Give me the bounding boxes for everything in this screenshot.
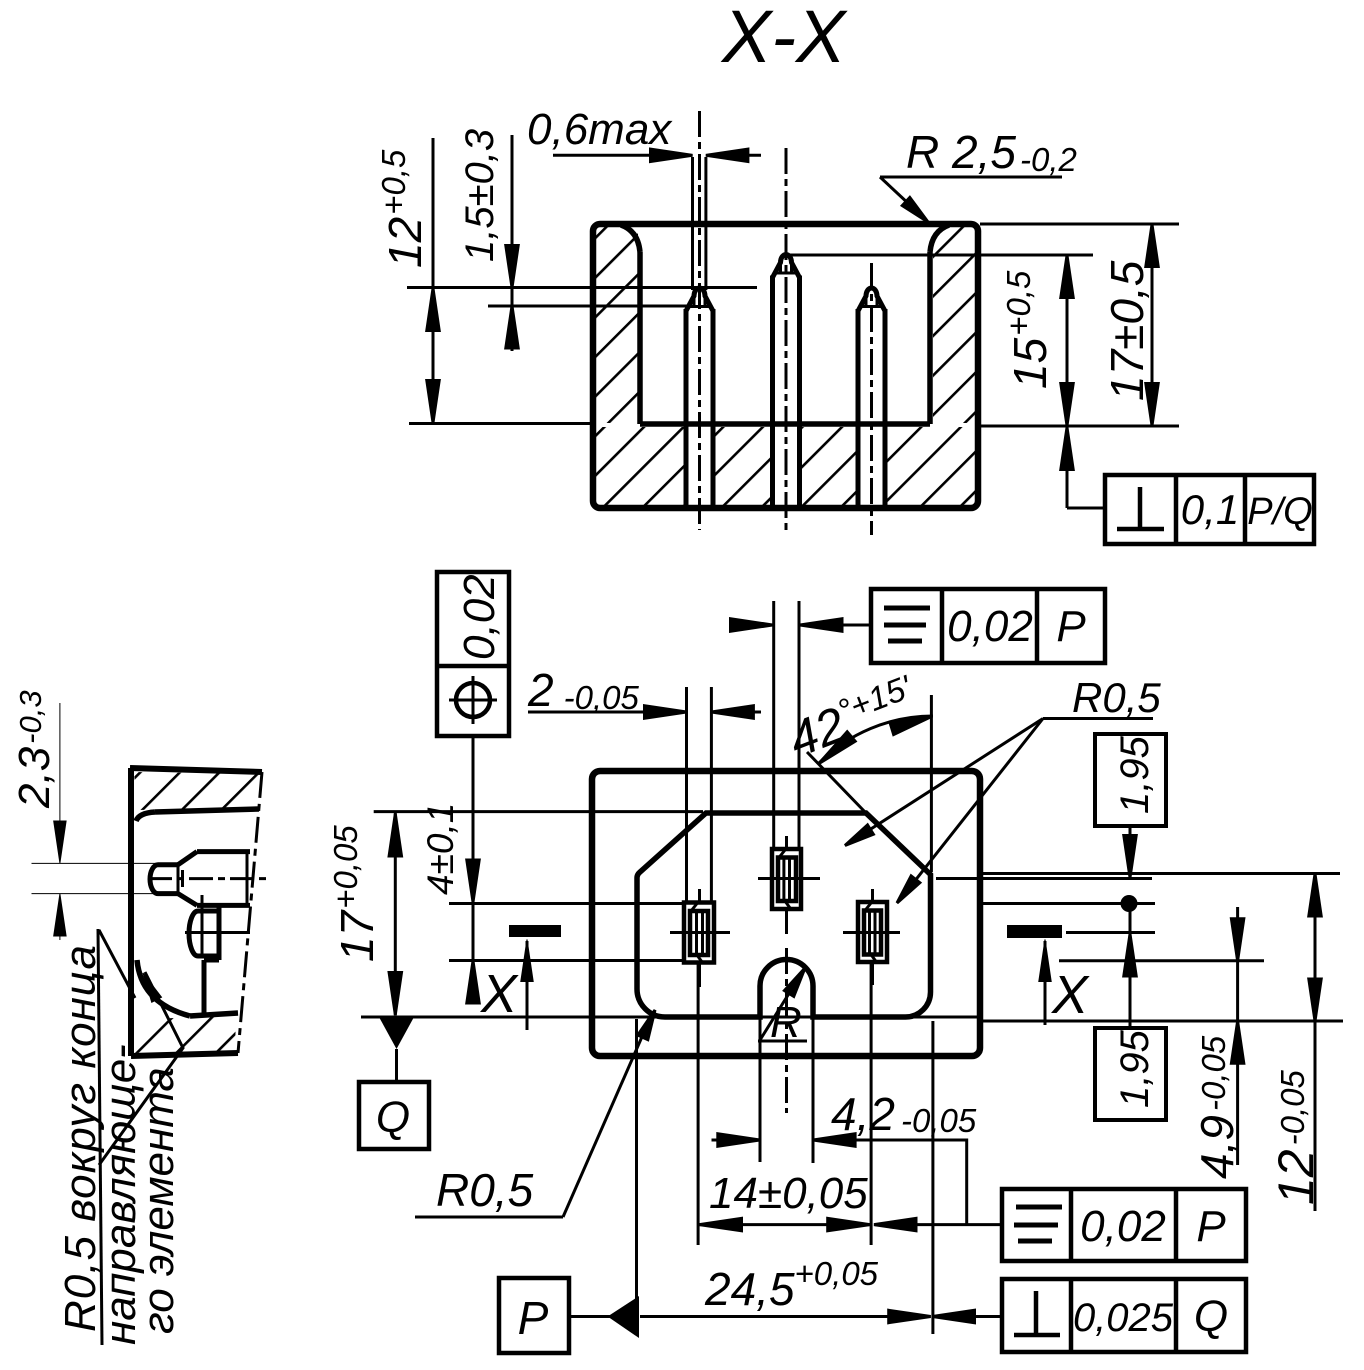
- svg-text:1,95: 1,95: [1113, 735, 1157, 814]
- bottom wall inner edge: [190, 1013, 238, 1016]
- guide pin bullet: [150, 852, 250, 906]
- ext 42deg vertical leg: [930, 695, 933, 872]
- pin socket centre centerlines: [785, 836, 788, 848]
- datum P box: [499, 1278, 569, 1353]
- ext socket width verticals: [685, 687, 688, 902]
- pin socket left centerlines: [698, 889, 701, 902]
- ext floor right: [980, 425, 1179, 428]
- svg-text:0,02: 0,02: [1080, 1202, 1166, 1251]
- svg-text:P: P: [1196, 1202, 1226, 1251]
- dim 12-0,05: [1314, 874, 1317, 1212]
- ext centre socket verticals: [772, 601, 775, 849]
- pin socket centre: [772, 849, 801, 909]
- pin 3 centerline: [870, 263, 873, 535]
- svg-text:R0,5: R0,5: [436, 1164, 534, 1216]
- cavity floor wall: [217, 906, 222, 960]
- FCF position 0,02 box: [437, 572, 509, 736]
- svg-text:P/Q: P/Q: [1247, 491, 1312, 533]
- ext notch walls down: [759, 1017, 762, 1162]
- pin socket right: [858, 902, 887, 962]
- axis centre pin row: [758, 877, 820, 880]
- ext notch top right: [1059, 959, 1264, 962]
- ext cavity bottom right: [980, 1020, 1343, 1023]
- FCF perpendicularity 0,025 Q: [1002, 1279, 1246, 1352]
- top wall hatch: [134, 772, 259, 810]
- svg-text:0,025: 0,025: [1073, 1296, 1174, 1340]
- datum Q box: [359, 1082, 429, 1149]
- guide element bump: [189, 911, 219, 956]
- cavity flare fillet: [137, 960, 190, 1016]
- svg-text:1,95: 1,95: [1113, 1029, 1157, 1108]
- ext line pin2 tip level right: [788, 254, 1093, 257]
- ext cavity bottom left: [361, 1016, 980, 1019]
- dim 0,6max lines: [691, 157, 694, 290]
- ext pin right centre down: [870, 962, 873, 1245]
- datum P leader and triangle: [569, 1315, 612, 1318]
- pin 2 centerline: [785, 148, 788, 535]
- pin 1 body: [686, 288, 713, 506]
- section arrow right: [1044, 941, 1047, 1025]
- pin 1 centerline: [698, 111, 701, 530]
- svg-text:1,5±0,3: 1,5±0,3: [458, 129, 502, 262]
- dim 1,95 upper box: [1095, 734, 1166, 826]
- body outline: [130, 768, 262, 772]
- FCF perpendicularity bottom leader: [934, 1315, 1002, 1318]
- svg-text:P: P: [1056, 602, 1086, 651]
- cavity right entry fillet R2,5: [930, 225, 949, 252]
- pin socket left: [684, 903, 714, 963]
- svg-text:14±0,05: 14±0,05: [709, 1169, 868, 1218]
- axis outer pin row right: [1066, 931, 1155, 934]
- ext cavity right edge down: [931, 1021, 934, 1334]
- left wall hatch: [596, 227, 638, 423]
- FCF position leader / dim 4±0,1 line: [472, 736, 475, 986]
- svg-text:X-X: X-X: [720, 0, 848, 78]
- cavity left wall inner edge: [637, 252, 643, 424]
- R0,5 leader to chamfer corner: [849, 719, 1043, 844]
- housing outer body: [593, 224, 978, 508]
- section arrow left: [526, 941, 529, 1030]
- ext line pin1 tip level: [407, 286, 757, 289]
- cavity floor: [640, 421, 930, 427]
- svg-text:0,6max: 0,6max: [527, 105, 673, 154]
- svg-text:0,02: 0,02: [947, 602, 1033, 651]
- top wall inner edge: [155, 809, 259, 812]
- svg-text:Q: Q: [376, 1093, 410, 1142]
- pin 3 body: [858, 288, 885, 506]
- note leader short: [99, 930, 135, 998]
- R0,5 leader to corner lower: [899, 719, 1043, 902]
- dim 1,95 lower box: [1095, 1028, 1166, 1120]
- ext line floor left: [409, 422, 592, 425]
- svg-text:4±0,1: 4±0,1: [420, 803, 461, 895]
- pin centerline: [148, 877, 269, 880]
- svg-text:P: P: [518, 1292, 549, 1344]
- cavity left entry fillet R2,5: [621, 225, 640, 252]
- svg-text:Q: Q: [1194, 1292, 1228, 1341]
- section trace right: [1007, 925, 1062, 938]
- FCF symmetry 0,02 P bottom: [1002, 1189, 1246, 1261]
- section trace left: [509, 925, 561, 937]
- axis connector middle left: [449, 902, 683, 905]
- node dot on axis: [1121, 895, 1138, 912]
- leader to perpendicularity frame: [1061, 428, 1073, 470]
- cavity right wall inner edge: [927, 252, 933, 424]
- FCF perpendicularity 0,1 P/Q: [1105, 475, 1314, 544]
- note leader: [99, 972, 183, 1165]
- bottom wall hatch: [134, 1015, 236, 1053]
- base hatch: [596, 427, 684, 505]
- datum Q triangle: [379, 1017, 414, 1049]
- svg-text:17±0,5: 17±0,5: [1101, 260, 1153, 401]
- svg-text:0,02: 0,02: [455, 574, 504, 660]
- FCF symmetry top leader: [737, 624, 770, 627]
- pin 2 body: [773, 255, 800, 507]
- ext socket bottom left: [449, 959, 683, 962]
- ext cavity top left: [374, 810, 703, 813]
- ext line pin1 step level: [488, 305, 689, 308]
- svg-text:R0,5: R0,5: [1072, 674, 1161, 721]
- bump centerlines: [185, 931, 250, 934]
- centre axis of notch: [785, 948, 788, 1113]
- ext pin left centre down: [697, 963, 700, 1245]
- right wall hatch: [933, 227, 976, 423]
- svg-text:0,1: 0,1: [1181, 486, 1239, 533]
- connector body outline: [592, 771, 980, 1056]
- ext cavity left edge down: [635, 1019, 638, 1330]
- dim 4,9-0,05: [1236, 907, 1239, 1165]
- svg-text:X: X: [479, 964, 519, 1024]
- pin socket right centerlines: [871, 889, 874, 901]
- 42deg chamfer construction line: [807, 752, 866, 813]
- ext top edge right: [980, 223, 1179, 226]
- svg-text:X: X: [1050, 965, 1090, 1025]
- note underline: [98, 929, 102, 1345]
- slanted break edge: [238, 772, 262, 1053]
- cavity outline with chamfer and key notch: [637, 813, 931, 1017]
- FCF symmetry bottom leader: [875, 1223, 1002, 1226]
- FCF symmetry 0,02 P top: [871, 589, 1105, 663]
- axis connector middle right: [980, 902, 1155, 905]
- ext line 12-dim upper right: [980, 872, 1340, 875]
